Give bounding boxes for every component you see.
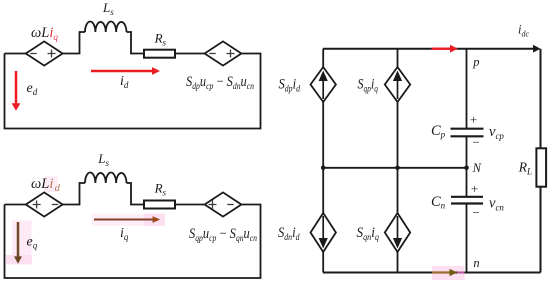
svg-text:−: − xyxy=(472,135,481,150)
magenta tinted wire segment under highlight xyxy=(457,272,465,274)
junction dot branch2/N xyxy=(395,166,400,171)
wire top-left stub (q loop) xyxy=(5,204,26,206)
plus sign of wLiq source xyxy=(48,50,56,58)
arrowhead idc (black) xyxy=(533,45,541,53)
current source Sdp*id (diamond, arrow up) xyxy=(311,67,336,102)
minus sign of wLiq source xyxy=(30,53,36,55)
middle bus wire (node N rail) xyxy=(323,167,467,169)
junction dot branch1/N xyxy=(321,166,326,171)
capacitor Cp plates xyxy=(451,129,484,137)
pink highlight behind bottom bus arrow xyxy=(432,266,465,280)
wire resistor to right source (q loop) xyxy=(175,204,205,206)
branch 1 vertical wire xyxy=(322,49,324,273)
svg-text:−: − xyxy=(472,205,481,220)
wire resistor to right source xyxy=(175,53,205,55)
plus sign of right source xyxy=(227,50,235,58)
resistor Rs (top loop) xyxy=(144,50,175,58)
dependent source Sqp*ucp - Sqn*ucn (diamond) xyxy=(205,192,242,216)
dependent source wLid (diamond) xyxy=(26,192,63,216)
pink highlight behind eq arrow xyxy=(12,221,32,265)
emf arrow ed (red) xyxy=(12,71,21,111)
inductor Ls (q loop) xyxy=(85,173,127,184)
pink highlight at eq arrowhead xyxy=(6,255,32,265)
wire top-left stub xyxy=(5,53,26,55)
current source Sdn*id (diamond, arrow down) xyxy=(311,213,336,252)
svg-text:p: p xyxy=(472,55,479,69)
wire from source to inductor xyxy=(63,32,85,54)
minus sign of wLid source xyxy=(52,204,58,206)
top bus wire xyxy=(323,48,533,50)
plus sign of right source (q loop) xyxy=(209,201,217,209)
minus sign of right source xyxy=(209,53,215,55)
svg-text:+: + xyxy=(469,112,478,127)
red arrow on top bus xyxy=(432,45,458,53)
wire right edge + bottom + left edge of q loop xyxy=(5,205,261,279)
svg-text:N: N xyxy=(472,161,482,175)
wire from inductor to resistor (q loop) xyxy=(127,183,145,205)
right edge wire with load xyxy=(540,49,542,273)
branch 2 vertical wire xyxy=(397,49,399,273)
capacitor branch vertical wire xyxy=(466,49,468,273)
plus sign of wLid source xyxy=(33,201,41,209)
pink highlight behind iq arrow xyxy=(92,214,165,227)
dependent source wLiq (diamond) xyxy=(26,41,63,65)
bottom bus wire xyxy=(323,272,541,274)
resistor Rs (q loop) xyxy=(144,201,175,209)
minus sign of right source (q loop) xyxy=(227,204,233,206)
current arrow id (red) xyxy=(91,67,160,75)
emf arrow eq (brown) xyxy=(14,222,22,264)
svg-text:+: + xyxy=(470,181,479,196)
current source Sqp*iq (diamond, arrow up) xyxy=(385,67,410,102)
pink highlight stronger right part of iq arrow xyxy=(144,214,165,227)
load resistor RL xyxy=(536,148,546,186)
svg-text:n: n xyxy=(473,256,479,270)
wire from inductor to resistor xyxy=(127,32,145,54)
brown arrow on bottom bus xyxy=(432,269,457,276)
wire right edge + bottom + left edge of top loop xyxy=(5,54,261,129)
current source Sqn*iq (diamond, arrow down) xyxy=(385,213,410,252)
pink highlight behind wLid label xyxy=(45,176,58,192)
junction dot node N xyxy=(464,166,469,171)
inductor Ls (top loop) xyxy=(85,22,127,33)
wire from source to inductor (q loop) xyxy=(63,183,85,205)
capacitor Cn plates xyxy=(451,197,483,204)
current arrow iq (brown) xyxy=(94,216,160,223)
dependent source Sdp*ucp - Sdn*ucn (diamond) xyxy=(205,41,242,65)
